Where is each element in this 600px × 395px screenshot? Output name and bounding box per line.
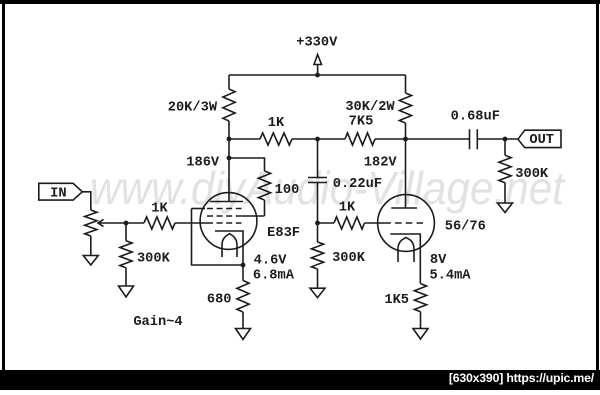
V1 heater: [222, 234, 237, 257]
frame right border: [596, 0, 599, 390]
wire 300K in to ground: [125, 268, 127, 286]
wire pot to ground: [90, 236, 92, 256]
resistor 20K/3W: [223, 89, 235, 121]
svg-text:7K5: 7K5: [349, 115, 374, 130]
svg-text:1K: 1K: [151, 202, 168, 217]
V2 cathode bar: [390, 234, 420, 284]
junction plate node 186V: [227, 156, 232, 161]
svg-text:680: 680: [207, 293, 232, 308]
svg-text:300K: 300K: [332, 251, 366, 266]
wire node E to R 1K grid: [318, 222, 335, 224]
V1 grid1 row: [207, 222, 242, 224]
junction node A: [227, 137, 232, 142]
ground pot: [83, 256, 98, 266]
wire node F down: [125, 223, 127, 241]
wire 20K bottom to node: [228, 121, 230, 139]
resistor 7K5: [345, 133, 375, 145]
svg-text:OUT: OUT: [529, 133, 554, 148]
V2 grid row: [384, 222, 423, 224]
wire R680 to ground: [242, 312, 244, 329]
svg-text:182V: 182V: [364, 155, 398, 170]
svg-text:IN: IN: [50, 187, 66, 202]
resistor 1K5: [414, 284, 426, 312]
ground input: [119, 286, 134, 297]
wire 30K bottom to node C: [405, 123, 407, 139]
svg-text:Gain~4: Gain~4: [133, 315, 182, 330]
wire rail left drop: [228, 75, 230, 89]
resistor 300K interstage: [311, 242, 323, 269]
frame left border: [2, 0, 5, 390]
junction node F: [124, 221, 129, 226]
wire cap to node D: [477, 138, 518, 140]
junction rail-arrow: [315, 73, 320, 78]
wire 1K5 to ground: [420, 312, 422, 329]
wire node C to plate V2: [405, 139, 407, 208]
svg-text:E83F: E83F: [267, 226, 300, 241]
wire R 1K to node B: [292, 138, 318, 140]
power arrow +330V: [314, 55, 322, 76]
bottom bar: [0, 370, 600, 390]
frame top border: [0, 0, 600, 4]
wire node F to R 1K in: [126, 222, 144, 224]
V1 grid3 row: [192, 208, 206, 210]
port IN tag: [39, 183, 83, 200]
svg-text:20K/3W: 20K/3W: [168, 101, 218, 116]
junction node D: [503, 137, 508, 142]
svg-text:8V: 8V: [430, 253, 447, 268]
wire rail right drop: [405, 75, 407, 93]
resistor 300K input: [120, 241, 132, 268]
wire node E down: [317, 223, 319, 242]
svg-text:0.22uF: 0.22uF: [333, 177, 382, 192]
svg-text:56/76: 56/76: [445, 220, 486, 235]
junction cathode node V1: [241, 263, 246, 268]
svg-text:5.4mA: 5.4mA: [429, 268, 471, 283]
svg-text:0.68uF: 0.68uF: [451, 110, 500, 125]
svg-text:+330V: +330V: [296, 36, 338, 51]
svg-text:1K: 1K: [268, 116, 285, 131]
svg-text:100: 100: [275, 183, 300, 198]
ground V1 cathode: [236, 329, 251, 340]
wire node C to C 0.68uF: [406, 138, 470, 140]
V1 cathode bar: [215, 231, 243, 265]
svg-text:300K: 300K: [515, 167, 549, 182]
wire node B down to cap: [317, 139, 319, 178]
svg-text:30K/2W: 30K/2W: [345, 100, 395, 115]
ground output: [498, 203, 513, 213]
capacitor 0.68uF: [470, 129, 478, 149]
wire node B to R 7K5: [318, 138, 346, 140]
resistor 1K supply: [260, 133, 292, 145]
wire 300K out to ground: [504, 183, 506, 203]
wire node A to plate node: [228, 139, 230, 158]
resistor 680: [237, 281, 249, 313]
wire IN to pot: [82, 192, 91, 210]
tube V1 E83F envelope: [200, 193, 257, 250]
ground V2 cathode: [413, 329, 428, 340]
V2 plate: [391, 207, 417, 209]
bottom bar caption: [0, 371, 594, 389]
svg-text:6.8mA: 6.8mA: [253, 268, 295, 283]
wire 1K to V2 grid: [365, 222, 385, 224]
svg-text:1K5: 1K5: [384, 293, 409, 308]
wire top rail: [229, 74, 406, 76]
junction node B: [315, 137, 320, 142]
capacitor 0.22uF: [308, 178, 327, 183]
wire plate node to R100: [229, 158, 265, 171]
wire node D down: [504, 139, 506, 155]
V1 grid2 row: [207, 215, 242, 217]
wire node A to R 1K supply: [229, 138, 260, 140]
potentiometer wiper: [98, 219, 126, 226]
svg-text:186V: 186V: [186, 155, 220, 170]
potentiometer body: [85, 210, 97, 236]
ground interstage: [310, 288, 325, 297]
V1 plate: [210, 201, 243, 203]
tube V2 56/76 envelope: [378, 195, 435, 252]
wire plate lead V1: [228, 158, 230, 202]
wire 1K to V1 grid: [175, 222, 207, 224]
wire cathode node to R680: [242, 265, 244, 281]
V2 heater: [398, 237, 414, 262]
wire 300K mid to ground: [317, 269, 319, 288]
resistor 1K grid V1: [144, 217, 175, 229]
wire R100 to grid2: [264, 200, 266, 216]
junction node E: [315, 221, 320, 226]
port OUT tag: [518, 130, 561, 147]
svg-text:1K: 1K: [339, 201, 356, 216]
resistor 30K/2W: [399, 93, 411, 123]
svg-text:4.6V: 4.6V: [254, 254, 288, 269]
wire R 7K5 to node C: [375, 138, 406, 140]
resistor 1K grid V2: [334, 217, 365, 229]
wire cap to node E: [317, 183, 319, 224]
resistor 300K output: [499, 155, 511, 182]
svg-text:300K: 300K: [137, 252, 171, 267]
junction node C: [403, 137, 408, 142]
resistor 100: [258, 171, 270, 200]
wire g3 to cathode link: [192, 209, 244, 266]
